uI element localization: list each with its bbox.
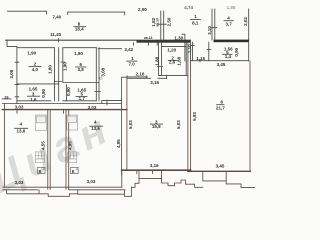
svg-text:3,16: 3,16 <box>150 80 159 85</box>
svg-text:3,42: 3,42 <box>124 47 133 52</box>
svg-text:21,7: 21,7 <box>216 106 225 111</box>
svg-text:1,90: 1,90 <box>27 50 36 55</box>
svg-text:0,90: 0,90 <box>41 89 46 98</box>
svg-text:1,6: 1,6 <box>30 97 37 102</box>
svg-text:1,88: 1,88 <box>176 56 181 65</box>
svg-text:7,40: 7,40 <box>52 14 61 19</box>
svg-text:3,03: 3,03 <box>15 180 24 185</box>
svg-text:кв.14: кв.14 <box>144 36 153 40</box>
svg-text:4,95: 4,95 <box>67 141 72 150</box>
svg-text:кв.13: кв.13 <box>155 18 159 27</box>
svg-text:2,50: 2,50 <box>167 17 172 26</box>
svg-text:2,00: 2,00 <box>138 7 147 12</box>
svg-text:3,08: 3,08 <box>9 69 14 78</box>
svg-text:1,80: 1,80 <box>47 65 52 74</box>
svg-text:5,03: 5,03 <box>176 120 181 129</box>
svg-text:1,88: 1,88 <box>154 56 159 65</box>
svg-text:3,03: 3,03 <box>88 105 97 110</box>
svg-text:3,03: 3,03 <box>15 105 24 110</box>
svg-text:3,8: 3,8 <box>77 67 84 72</box>
svg-text:3,45: 3,45 <box>217 62 226 67</box>
svg-text:3,08: 3,08 <box>101 67 106 76</box>
svg-text:4,95: 4,95 <box>116 139 121 148</box>
svg-text:3,10: 3,10 <box>207 26 212 35</box>
svg-text:0,90: 0,90 <box>66 87 71 96</box>
svg-text:1,15: 1,15 <box>196 56 205 61</box>
svg-text:1,10: 1,10 <box>187 44 192 53</box>
svg-text:11,40: 11,40 <box>50 32 62 37</box>
svg-text:4,55: 4,55 <box>41 141 46 150</box>
svg-text:13,6: 13,6 <box>17 128 26 133</box>
svg-text:1,90: 1,90 <box>74 51 83 56</box>
svg-text:13,6: 13,6 <box>91 126 100 131</box>
svg-text:4,0: 4,0 <box>32 67 39 72</box>
svg-text:5,03: 5,03 <box>128 120 133 129</box>
svg-text:5,93: 5,93 <box>192 112 197 121</box>
svg-text:3,03: 3,03 <box>87 179 96 184</box>
svg-text:18,4: 18,4 <box>75 27 84 32</box>
svg-text:3,16: 3,16 <box>150 163 159 168</box>
svg-text:2,16: 2,16 <box>136 72 145 77</box>
svg-text:26: 26 <box>4 96 8 100</box>
svg-text:2,02: 2,02 <box>243 17 248 26</box>
svg-text:1,88: 1,88 <box>227 5 236 10</box>
svg-text:15,8: 15,8 <box>152 124 161 129</box>
svg-text:7,0: 7,0 <box>128 62 135 67</box>
svg-text:1,7: 1,7 <box>79 96 86 101</box>
svg-text:2,6: 2,6 <box>169 60 176 65</box>
svg-text:8,1: 8,1 <box>192 20 199 25</box>
svg-text:4,74: 4,74 <box>184 5 193 10</box>
svg-text:1,30: 1,30 <box>174 35 183 40</box>
svg-text:К: К <box>39 169 42 174</box>
svg-text:3,7: 3,7 <box>225 21 232 26</box>
svg-text:1,90: 1,90 <box>63 62 68 71</box>
svg-text:К: К <box>72 169 75 174</box>
svg-text:0,90: 0,90 <box>234 47 239 56</box>
svg-text:1,4: 1,4 <box>225 54 232 59</box>
svg-text:1,20: 1,20 <box>167 48 176 53</box>
svg-text:3,45: 3,45 <box>216 164 225 169</box>
